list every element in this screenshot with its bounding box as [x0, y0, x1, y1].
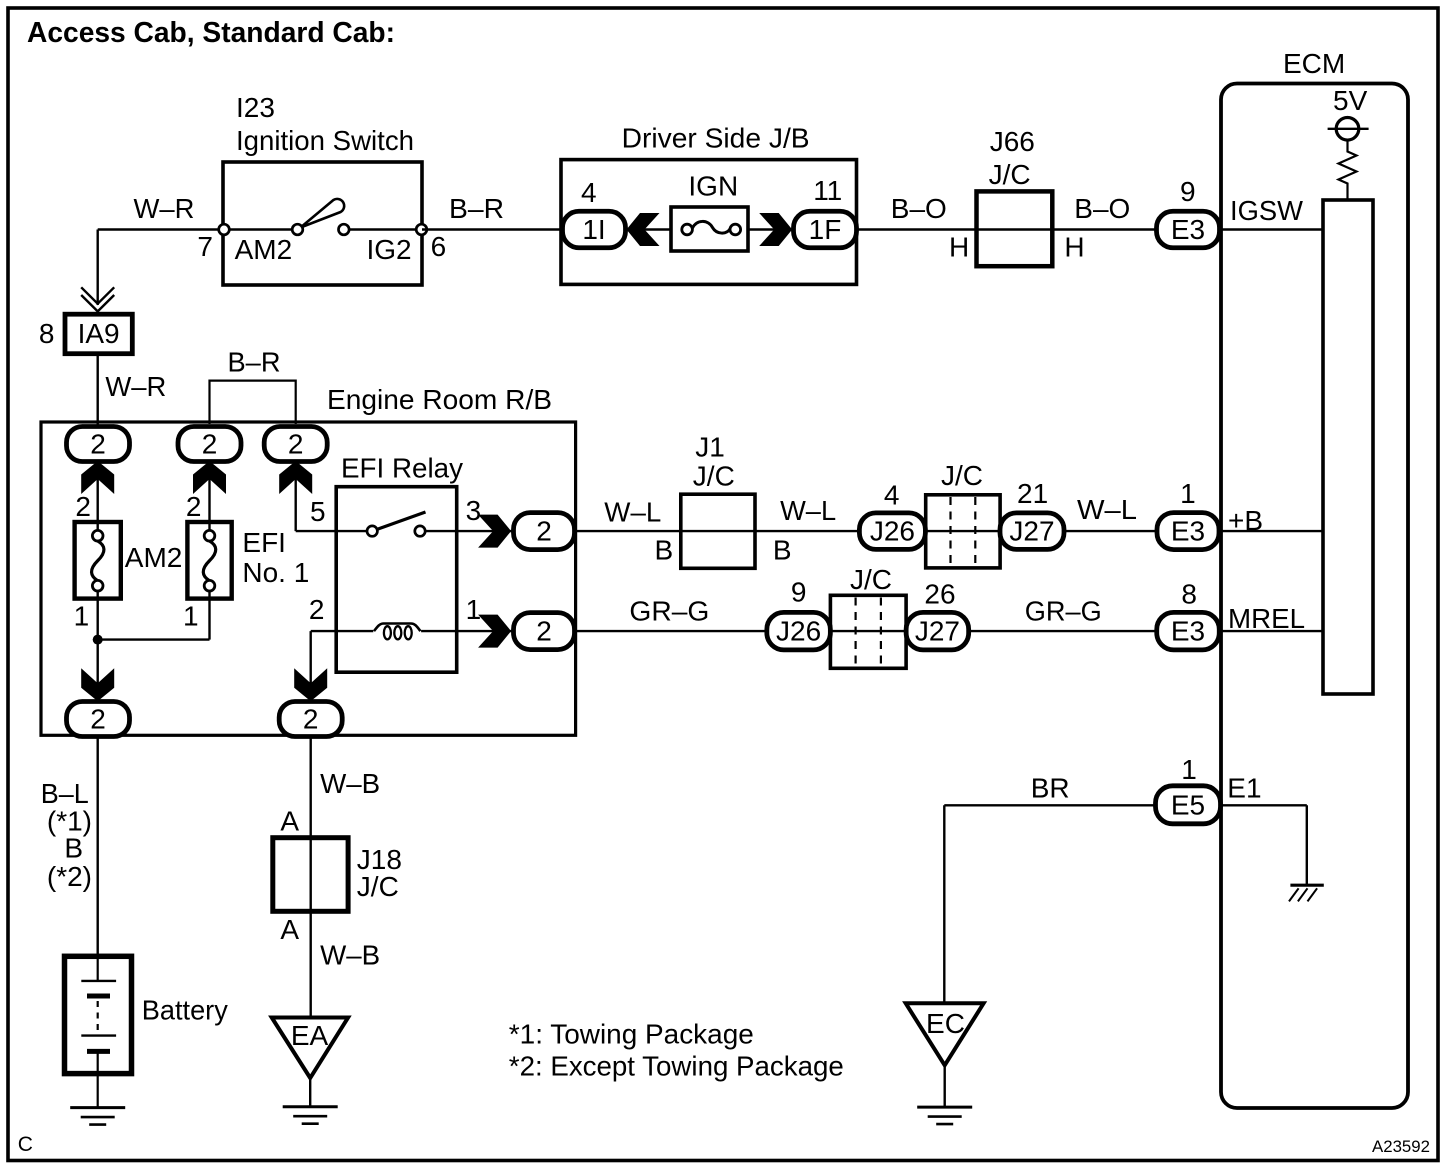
svg-text:Engine Room R/B: Engine Room R/B — [327, 384, 552, 415]
svg-text:2: 2 — [303, 704, 319, 735]
svg-text:1I: 1I — [582, 214, 605, 245]
wire relay pin1 — [421, 630, 513, 632]
arrow down col4 — [294, 668, 327, 701]
ground battery — [70, 1106, 125, 1109]
ground EC — [917, 1106, 972, 1109]
wire B-O right — [1052, 228, 1157, 230]
oval 2 bottom col2 — [279, 702, 342, 737]
svg-text:1: 1 — [74, 601, 90, 632]
dashed v2 row1 — [974, 497, 976, 566]
connector E3 IGSW oval — [1157, 211, 1220, 248]
svg-text:2: 2 — [288, 429, 304, 460]
wire E1 internal — [1221, 804, 1307, 806]
wire fuse AM2 column top — [96, 460, 98, 536]
wire J1 to J26 — [755, 530, 860, 532]
svg-text:1: 1 — [1181, 754, 1197, 785]
wire fuse EFI column top — [208, 460, 210, 536]
relay contact left — [367, 526, 377, 536]
wire through J/C row2 — [830, 630, 906, 632]
wire GR-G to J26 — [576, 630, 768, 632]
svg-text:Battery: Battery — [142, 995, 228, 1026]
svg-text:J27: J27 — [915, 616, 960, 647]
terminal 6 — [416, 224, 427, 235]
svg-text:2: 2 — [309, 594, 325, 625]
terminal 7 — [219, 224, 230, 235]
svg-text:2: 2 — [186, 491, 202, 522]
dashed v1 row2 — [854, 598, 856, 667]
wire MREL internal — [1221, 630, 1323, 632]
svg-text:1: 1 — [1180, 478, 1196, 509]
wire inside switch right — [349, 228, 422, 230]
svg-text:ECM: ECM — [1283, 48, 1345, 79]
wire W-R from IA9 down — [96, 354, 98, 427]
svg-text:J26: J26 — [776, 616, 821, 647]
svg-text:1F: 1F — [809, 214, 842, 245]
wire BR vertical — [943, 805, 945, 1003]
svg-text:2: 2 — [536, 516, 552, 547]
svg-text:EFI: EFI — [242, 527, 286, 558]
wire col3 vertical — [295, 460, 297, 531]
svg-text:BR: BR — [1031, 772, 1070, 803]
wire relay pin3 — [425, 530, 513, 532]
oval 2 top col2 — [178, 427, 241, 462]
arrow up col3 — [279, 461, 312, 494]
arrow out of IGN — [759, 213, 792, 246]
junction J18 box — [273, 838, 348, 912]
svg-text:EA: EA — [291, 1020, 329, 1051]
svg-text:B–R: B–R — [449, 193, 504, 224]
svg-text:+B: +B — [1228, 505, 1263, 536]
Engine Room R/B box — [41, 422, 576, 735]
svg-text:J/C: J/C — [941, 460, 983, 491]
wire B-R — [422, 228, 561, 230]
wire EA to ground — [309, 1078, 311, 1107]
svg-text:IA9: IA9 — [78, 318, 120, 349]
wire oval to battery — [96, 737, 98, 957]
jumper B-R bracket — [210, 381, 296, 424]
svg-text:(*2): (*2) — [47, 861, 92, 892]
svg-text:GR–G: GR–G — [629, 596, 709, 627]
svg-text:W–B: W–B — [320, 939, 380, 970]
resistor to 5V — [1339, 140, 1357, 200]
junction J/C box row2 — [830, 595, 906, 668]
svg-text:GR–G: GR–G — [1025, 596, 1102, 627]
ground symbol EA triangle — [272, 1018, 348, 1079]
svg-text:B–R: B–R — [228, 347, 281, 378]
ECM box — [1221, 84, 1408, 1109]
svg-text:IGN: IGN — [688, 171, 738, 202]
fuse AM2 box — [75, 522, 121, 599]
svg-text:IGSW: IGSW — [1230, 195, 1304, 226]
junction dot — [93, 635, 103, 645]
svg-text:26: 26 — [924, 579, 955, 610]
Driver Side J/B box — [561, 160, 857, 285]
svg-text:21: 21 — [1017, 478, 1048, 509]
connector J26 oval — [859, 513, 925, 550]
svg-text:AM2: AM2 — [125, 542, 183, 573]
dashed v2 row2 — [880, 598, 882, 667]
svg-text:J1: J1 — [695, 432, 725, 463]
wire through J1 — [681, 530, 755, 532]
wire dot to EFI fuse — [98, 638, 210, 640]
junction J66 box — [977, 191, 1053, 266]
fuse EFI box — [187, 522, 231, 599]
splice double chevron — [81, 287, 114, 303]
chassis ground E1 — [1290, 884, 1323, 887]
svg-text:J/C: J/C — [693, 461, 735, 492]
fuse AM2 symbol — [92, 541, 104, 581]
ECM pin strip — [1323, 200, 1373, 694]
wire W-L to J1 — [576, 530, 681, 532]
svg-text:E5: E5 — [1171, 789, 1205, 820]
ground symbol EC triangle — [906, 1003, 984, 1065]
svg-text:2: 2 — [75, 491, 91, 522]
svg-text:4: 4 — [884, 480, 900, 511]
wire EC to ground — [944, 1065, 946, 1107]
arrow up col1 — [81, 461, 114, 494]
svg-text:I23: I23 — [236, 92, 275, 123]
svg-text:E3: E3 — [1171, 516, 1205, 547]
fuse IGN symbol — [692, 221, 730, 233]
wire W-R horizontal to ignition switch — [98, 228, 293, 230]
svg-text:A23592: A23592 — [1372, 1137, 1430, 1156]
wire E1 vertical — [1306, 805, 1308, 885]
svg-text:B: B — [655, 535, 674, 566]
svg-text:Access Cab, Standard Cab:: Access Cab, Standard Cab: — [27, 17, 395, 49]
EFI relay box — [336, 487, 457, 673]
wire through J18 — [310, 838, 312, 912]
svg-text:Driver Side J/B: Driver Side J/B — [622, 123, 810, 154]
switch contact left — [292, 224, 303, 235]
svg-text:1: 1 — [183, 601, 199, 632]
svg-text:9: 9 — [1180, 176, 1196, 207]
switch lever — [301, 199, 345, 228]
svg-text:2: 2 — [90, 704, 106, 735]
svg-text:A: A — [280, 914, 299, 945]
connector 1I oval — [563, 211, 626, 248]
wire jb right — [748, 228, 857, 230]
svg-text:11: 11 — [813, 175, 842, 206]
svg-text:4: 4 — [581, 177, 597, 208]
svg-text:J66: J66 — [990, 126, 1035, 157]
connector IA9 box — [65, 314, 132, 354]
wire relay pin2 vertical — [310, 631, 312, 702]
svg-text:W–L: W–L — [604, 496, 661, 527]
oval 2 relay out bottom — [514, 613, 575, 650]
svg-text:No. 1: No. 1 — [242, 557, 309, 588]
fuse IGN box — [671, 207, 748, 251]
svg-text:W–B: W–B — [320, 768, 380, 799]
relay switch lever — [372, 512, 425, 531]
wire oval to J18 — [310, 737, 312, 838]
switch contact right — [339, 224, 350, 235]
svg-text:J/C: J/C — [989, 159, 1031, 190]
svg-text:W–L: W–L — [1077, 494, 1137, 525]
svg-text:2: 2 — [536, 616, 552, 647]
wire +B internal — [1221, 530, 1323, 532]
svg-text:*1: Towing Package: *1: Towing Package — [509, 1019, 754, 1050]
arrow out pin1 — [478, 615, 511, 648]
wire relay pin5 — [296, 530, 368, 532]
wire B-O left — [857, 228, 977, 230]
svg-text:8: 8 — [39, 318, 55, 349]
oval 2 top col3 — [264, 427, 327, 462]
oval 2 top col1 — [67, 427, 130, 462]
arrow up col2 — [193, 461, 226, 494]
fuse EFI symbol — [203, 541, 215, 581]
ground EA — [283, 1105, 338, 1108]
wire jb left — [562, 228, 671, 230]
svg-text:A: A — [280, 806, 299, 837]
svg-text:B: B — [64, 832, 83, 863]
wire BR horizontal — [944, 804, 1157, 806]
svg-text:E3: E3 — [1171, 616, 1205, 647]
connector E3 +B oval — [1157, 513, 1219, 550]
svg-text:C: C — [18, 1133, 33, 1156]
svg-text:1: 1 — [466, 594, 482, 625]
junction J/C box row1 — [926, 495, 1000, 568]
wire through J66 — [977, 228, 1053, 230]
svg-text:J/C: J/C — [850, 564, 892, 595]
relay contact right — [415, 526, 425, 536]
svg-text:6: 6 — [431, 231, 447, 262]
wire IGSW internal — [1221, 228, 1323, 230]
svg-text:9: 9 — [791, 577, 807, 608]
svg-text:8: 8 — [1181, 579, 1197, 610]
ignition switch I23 box — [223, 162, 422, 285]
arrow down col1 — [81, 668, 114, 701]
svg-text:H: H — [949, 231, 969, 262]
battery box — [65, 956, 132, 1073]
svg-text:MREL: MREL — [1228, 603, 1305, 634]
svg-text:W–R: W–R — [134, 193, 195, 224]
connector E3 MREL oval — [1157, 612, 1220, 650]
connector J26b oval — [767, 612, 831, 650]
svg-text:B–O: B–O — [1074, 193, 1130, 224]
svg-text:E3: E3 — [1171, 214, 1205, 245]
svg-text:2: 2 — [202, 429, 218, 460]
svg-text:5V: 5V — [1333, 85, 1368, 116]
wire fuse AM2 column bottom — [96, 586, 98, 702]
wire W-R vertical drop — [96, 230, 98, 306]
svg-text:AM2: AM2 — [235, 234, 293, 265]
wire through J/C row1 — [926, 530, 1000, 532]
svg-text:IG2: IG2 — [367, 234, 412, 265]
svg-text:EC: EC — [926, 1008, 965, 1039]
svg-text:B–L: B–L — [41, 778, 89, 809]
svg-text:J/C: J/C — [357, 871, 399, 902]
svg-text:3: 3 — [466, 495, 482, 526]
arrow into 1I — [627, 213, 660, 246]
svg-text:W–L: W–L — [780, 495, 836, 526]
svg-text:J26: J26 — [870, 516, 915, 547]
wire relay pin2 horiz — [311, 630, 374, 632]
svg-text:B–O: B–O — [891, 193, 947, 224]
svg-text:5: 5 — [310, 496, 326, 527]
battery plates — [81, 980, 116, 982]
arrow out pin3 — [478, 515, 511, 548]
svg-text:Ignition Switch: Ignition Switch — [236, 125, 414, 156]
svg-text:7: 7 — [197, 231, 213, 262]
connector J27b oval — [906, 612, 969, 650]
svg-text:J27: J27 — [1009, 516, 1054, 547]
relay coil — [374, 624, 420, 632]
svg-text:W–R: W–R — [105, 371, 166, 402]
connector 1F oval — [794, 211, 857, 248]
wire J18 to EA — [310, 911, 312, 1017]
svg-text:*2: Except Towing Package: *2: Except Towing Package — [509, 1051, 844, 1082]
junction J1 box — [681, 494, 755, 568]
oval 2 relay out top — [514, 513, 575, 550]
connector E5 oval — [1156, 786, 1221, 824]
svg-text:2: 2 — [90, 429, 106, 460]
connector J27 oval — [1000, 513, 1064, 550]
svg-text:EFI Relay: EFI Relay — [341, 453, 463, 484]
svg-text:B: B — [773, 535, 792, 566]
dashed v1 row1 — [949, 497, 951, 566]
wire J27b to E3 — [969, 630, 1157, 632]
wire J27 to E3 — [1064, 530, 1157, 532]
5V source circle — [1336, 118, 1359, 141]
oval 2 bottom col1 — [67, 702, 130, 737]
svg-text:E1: E1 — [1227, 772, 1261, 803]
svg-text:H: H — [1064, 231, 1084, 262]
